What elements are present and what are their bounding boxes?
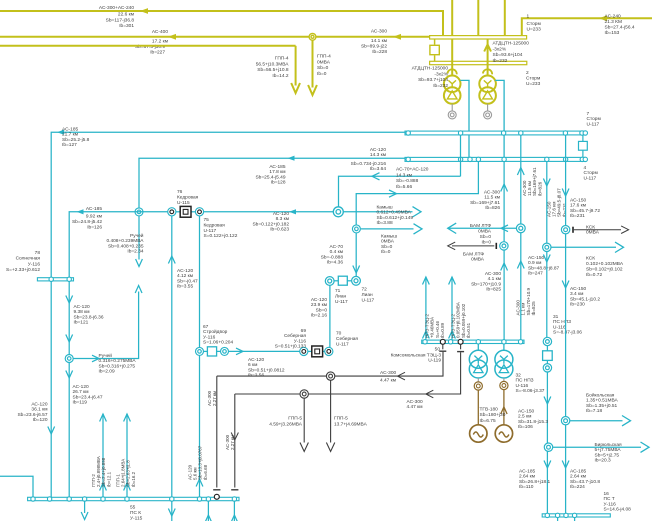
wire line AC-300 4.47km no.1 [217, 352, 443, 376]
svg-text:Стройдвор: Стройдвор [203, 328, 228, 335]
svg-text:4.59+j3.26МВА: 4.59+j3.26МВА [269, 421, 303, 427]
breaker 31-32 NPZ [543, 351, 553, 361]
svg-text:Sb=0.122+j0.182: Sb=0.122+j0.182 [252, 221, 289, 227]
svg-text:Sb=45.1-j10.2: Sb=45.1-j10.2 [570, 296, 600, 302]
svg-text:U-117: U-117 [584, 175, 597, 181]
load arrow KSK black [574, 229, 621, 231]
wire 110kV line AC-120 14.3km to Ruchej tap [139, 158, 405, 208]
svg-text:2.5 км: 2.5 км [518, 414, 531, 420]
svg-text:0МВА: 0МВА [381, 239, 395, 245]
node on busbar B left end [406, 157, 410, 161]
svg-text:1.35+0.51МВА: 1.35+0.51МВА [586, 398, 619, 404]
svg-text:АС-185: АС-185 [570, 469, 586, 475]
svg-text:ГПП-4: ГПП-4 [317, 54, 331, 60]
node ring Ruchej 2 tap [65, 355, 73, 363]
svg-text:Ib=825: Ib=825 [486, 287, 501, 293]
svg-text:АС-240: АС-240 [605, 14, 621, 20]
node on PS T bus 2 [555, 513, 559, 517]
svg-text:Ib=106: Ib=106 [518, 424, 533, 430]
node ring 70 Sebernaya [325, 347, 333, 355]
svg-text:Ib=2.34: Ib=2.34 [127, 249, 143, 255]
svg-text:Ib=0.72: Ib=0.72 [586, 272, 602, 278]
svg-text:ГПП-4: ГПП-4 [275, 56, 289, 62]
svg-text:ПС НПЗ: ПС НПЗ [516, 378, 534, 384]
svg-text:11.5 км: 11.5 км [484, 195, 500, 201]
node on busbar B right end [580, 157, 584, 161]
wire 220kV vertical feeder 2 [477, 0, 479, 36]
svg-text:9.38 км: 9.38 км [74, 309, 90, 315]
wire feeder AC-150 3.4km x565 [565, 135, 567, 514]
open point circle TEC-3 x460 [458, 339, 463, 344]
svg-text:32: 32 [516, 373, 522, 379]
svg-text:Ib=153: Ib=153 [605, 30, 620, 36]
load arrow GPP-5 4.59MVA [303, 398, 305, 442]
svg-text:Sb=0.734-j0.216: Sb=0.734-j0.216 [351, 161, 387, 167]
svg-text:U-117: U-117 [335, 299, 348, 305]
svg-text:7: 7 [587, 111, 590, 117]
line label AC-300 1.1km rot [516, 287, 537, 315]
svg-text:56.5+j10.3МВА: 56.5+j10.3МВА [256, 61, 290, 67]
svg-text:69: 69 [301, 328, 307, 334]
generator G1 neutral ring [477, 378, 479, 382]
wire x547 NPZ to T bus [546, 346, 548, 352]
svg-text:Ib=826: Ib=826 [537, 181, 542, 196]
svg-text:Sb=43.7-j10.8: Sb=43.7-j10.8 [570, 479, 600, 485]
svg-text:U-115: U-115 [177, 200, 190, 206]
svg-text:АС-300: АС-300 [484, 190, 500, 196]
svg-text:S=0.122+j0.122: S=0.122+j0.122 [204, 233, 238, 239]
svg-text:У-116: У-116 [294, 338, 307, 344]
wire 220kV vertical feeder 1 [451, 0, 453, 36]
svg-text:Sb=169+j7.61: Sb=169+j7.61 [470, 200, 500, 206]
wire feeder AC-300 A to TEC-3 bus x520 [520, 135, 522, 340]
svg-text:Sb=-0.888: Sb=-0.888 [396, 178, 419, 184]
svg-text:АТДЦТН-125000: АТДЦТН-125000 [412, 66, 449, 72]
svg-text:Ib=232: Ib=232 [433, 83, 448, 89]
svg-text:U-117: U-117 [336, 341, 349, 347]
svg-text:Sb=0.612+j0.149: Sb=0.612+j0.149 [377, 215, 414, 221]
svg-text:Ib=20.3: Ib=20.3 [595, 458, 611, 464]
svg-text:55: 55 [130, 505, 136, 511]
switch box Sebernaya [308, 350, 312, 352]
svg-text:Sb=24.8-j5.42: Sb=24.8-j5.42 [72, 219, 102, 225]
svg-text:U-117: U-117 [362, 297, 375, 303]
node ring Kamysh 2 [352, 225, 360, 233]
svg-text:АС-70+АС-120: АС-70+АС-120 [396, 167, 429, 173]
svg-text:Ручей: Ручей [99, 352, 113, 359]
svg-text:Ib=5.66: Ib=5.66 [396, 184, 412, 190]
node on K bus x171 [170, 497, 174, 501]
svg-text:Ib=825: Ib=825 [531, 301, 536, 316]
svg-text:Ib=120: Ib=120 [33, 417, 48, 423]
node on busbar B x547 [545, 157, 549, 161]
svg-text:Сторм: Сторм [527, 21, 541, 27]
svg-text:Ib=127: Ib=127 [62, 142, 77, 148]
svg-text:Ib=7.18: Ib=7.18 [586, 408, 602, 414]
line label AC-150 17.6km rot [546, 188, 567, 217]
node on PS T bus 4 [572, 513, 576, 517]
node on K bus x234 [232, 497, 236, 501]
switch box Strojdvor [204, 350, 208, 352]
svg-text:Ib=2.09: Ib=2.09 [99, 369, 115, 375]
line label NPZ-TEC-2 no.1 rot [425, 313, 445, 338]
svg-text:9.92 км: 9.92 км [86, 214, 102, 220]
svg-text:4: 4 [584, 165, 587, 171]
svg-text:Ib=119: Ib=119 [73, 400, 88, 406]
svg-text:АС-300: АС-300 [371, 29, 387, 35]
svg-text:Ib=230: Ib=230 [570, 302, 585, 308]
svg-text:Комсомольская ТЭЦ-3: Комсомольская ТЭЦ-3 [391, 353, 442, 359]
node ring 32 NPZ [543, 364, 551, 372]
svg-text:U=233: U=233 [526, 81, 541, 87]
svg-text:Камыш: Камыш [377, 205, 393, 211]
node ring 67 Strojdvor [196, 347, 204, 355]
svg-text:4.47 км: 4.47 км [407, 404, 423, 410]
svg-text:Ib=121: Ib=121 [74, 320, 89, 326]
svg-text:Лиан: Лиан [335, 293, 346, 299]
busbar 78 Solnechnaya [37, 278, 73, 281]
svg-text:АС-185: АС-185 [86, 206, 102, 212]
load arrow BAM LTF black [452, 245, 494, 247]
wire inflow left [0, 476, 33, 497]
svg-text:Ib=232: Ib=232 [493, 58, 508, 64]
svg-text:1: 1 [527, 14, 530, 20]
node on K bus x33 [31, 497, 35, 501]
svg-text:Sb=45.7-j9.72: Sb=45.7-j9.72 [570, 208, 600, 214]
node on busbar A x565 [563, 131, 567, 135]
svg-text:0.408+0.239МВА: 0.408+0.239МВА [106, 238, 144, 244]
node on TEC-3 bus x478 [476, 340, 480, 344]
feeder NPZ-TEC-2 no.1 [425, 277, 427, 340]
wire transformer AT1 HV feed [451, 39, 453, 76]
wire line AC-120 6km to Sebernaya [229, 350, 300, 352]
svg-text:Сторм: Сторм [587, 116, 601, 122]
node on K bus x208 [206, 497, 210, 501]
line label AC-300 2.27km no.2 rot [225, 434, 235, 450]
svg-text:Sb=-j0.47: Sb=-j0.47 [177, 278, 198, 284]
load arrow Bojkolskaya [570, 420, 623, 422]
svg-text:Сторм: Сторм [526, 76, 540, 82]
busbar 110kV A (7 Storm) [405, 131, 586, 135]
feeder NPZ-TEC-2 no.2 [451, 277, 453, 340]
svg-text:ПС Т: ПС Т [604, 496, 615, 502]
stub below PS T bus 2 [574, 517, 576, 521]
svg-text:Sb=0: Sb=0 [316, 307, 328, 313]
svg-text:АС-150: АС-150 [528, 255, 544, 261]
svg-text:Ib=12.1: Ib=12.1 [106, 471, 111, 487]
svg-text:Sb=93.7+j104: Sb=93.7+j104 [418, 77, 448, 83]
svg-text:6 км: 6 км [248, 362, 257, 368]
node on busbar B right end2 [583, 157, 587, 161]
node on busbar A x460 [458, 131, 462, 135]
svg-text:21.7 км: 21.7 км [62, 132, 78, 138]
svg-text:Камыш: Камыш [381, 234, 397, 240]
node ring BAM LTF black tap [500, 242, 508, 250]
svg-text:ГПП-5: ГПП-5 [288, 416, 302, 422]
svg-text:Ib=6.68: Ib=6.68 [203, 464, 208, 480]
svg-text:Sb=25.4-j5.49: Sb=25.4-j5.49 [255, 174, 285, 180]
svg-text:Ib=2.16: Ib=2.16 [311, 313, 327, 319]
svg-text:U=233: U=233 [527, 27, 542, 33]
svg-text:Ib=231: Ib=231 [570, 213, 585, 219]
wire 220kV vertical feeder 3 [504, 0, 506, 36]
node ring GPP-5 no.2 tap [326, 372, 334, 380]
svg-text:Sb=0.408+0.235: Sb=0.408+0.235 [108, 243, 144, 249]
node ring KSK black tap [561, 226, 569, 234]
wire line AC-120 8.3km Kedrovaya to Kamysh node [204, 211, 334, 213]
wire feeder AC-300 B to TEC-3 bus x504 [503, 161, 505, 340]
node ring 69 Sebernaya [300, 347, 308, 355]
svg-text:75: 75 [204, 217, 210, 223]
svg-text:Бирюльская: Бирюльская [595, 442, 623, 448]
wire 67 Strojdvor south to K bus [199, 356, 201, 498]
svg-text:67: 67 [203, 324, 209, 330]
node ring Ruchej tap [135, 208, 143, 216]
node on TEC-3 bus x504 [502, 340, 506, 344]
load arrow GPP-4 right [312, 40, 314, 87]
wire 220kV line AC-240 to Storm [522, 18, 652, 35]
svg-text:Солнечная: Солнечная [16, 256, 41, 262]
line label AC-300 11.5km rot [522, 167, 543, 196]
svg-text:71: 71 [335, 288, 341, 294]
svg-text:17.8 км: 17.8 км [269, 169, 285, 175]
svg-text:Sb=170+j10.9: Sb=170+j10.9 [471, 281, 501, 287]
wire line AC-120 36.1km south [50, 281, 52, 497]
svg-text:Sb=89.9-j22: Sb=89.9-j22 [361, 43, 387, 49]
svg-text:Sb=25.2-j5.8: Sb=25.2-j5.8 [62, 137, 90, 143]
load arrow 55 PS K [84, 501, 86, 513]
svg-text:У-115: У-115 [130, 516, 143, 521]
generator G1 TGV-180 [477, 390, 479, 425]
tertiary winding AT1 [451, 104, 453, 111]
svg-text:Сторм: Сторм [584, 170, 598, 176]
wire 110kV line AC-185 21.7km to Solnechnaya [51, 132, 405, 278]
tertiary winding AT2 [487, 104, 489, 111]
svg-text:16: 16 [604, 491, 610, 497]
svg-text:Ручей: Ручей [130, 232, 144, 239]
svg-text:S=0.51+j0.133: S=0.51+j0.133 [275, 344, 307, 350]
svg-text:3.4 км: 3.4 км [570, 291, 583, 297]
svg-text:АС-120: АС-120 [177, 268, 193, 274]
svg-text:U-119: U-119 [428, 358, 441, 364]
svg-text:4.12 км: 4.12 км [177, 273, 193, 279]
node ring GPP-5 no.1 tap [300, 390, 308, 398]
transformer T2 TEC-3 [503, 344, 505, 351]
svg-text:Ib=247: Ib=247 [528, 271, 543, 277]
line label AC-300 2.27km no.1 rot [207, 390, 217, 406]
svg-text:5+j7.75МВА: 5+j7.75МВА [595, 447, 622, 453]
svg-text:Sb=0.316+j0.275: Sb=0.316+j0.275 [99, 363, 136, 369]
svg-text:АС-185: АС-185 [519, 469, 535, 475]
svg-text:Ib=128: Ib=128 [271, 180, 286, 186]
svg-text:2.27 км: 2.27 км [212, 391, 217, 406]
svg-text:0.9 км: 0.9 км [528, 260, 541, 266]
svg-text:8.3 км: 8.3 км [276, 216, 289, 222]
node on busbar A x520 [519, 131, 523, 135]
node ring Birjulinskaya [544, 443, 552, 451]
node on TEC-3 bus x450 [448, 340, 452, 344]
wire 220kV line 3 [0, 45, 296, 47]
svg-text:S=1.06+0.204: S=1.06+0.204 [203, 340, 233, 346]
stub below K bus x234 [233, 501, 235, 521]
svg-text:Ib=0.623: Ib=0.623 [270, 227, 289, 233]
svg-text:АС-120: АС-120 [311, 297, 327, 303]
feeder GPP-2 [102, 414, 104, 497]
svg-text:70: 70 [336, 331, 342, 337]
node ring KSK cyan [543, 243, 551, 251]
wire feeder AC-150 17.6km x547 [546, 161, 548, 337]
svg-text:Ib=224: Ib=224 [570, 484, 585, 490]
svg-text:4.1 км: 4.1 км [488, 276, 501, 282]
svg-text:Sb=31.8-j15.3: Sb=31.8-j15.3 [518, 419, 548, 425]
svg-text:Sb=26.8+j18.1: Sb=26.8+j18.1 [519, 479, 551, 485]
node on busbar B x504 [502, 157, 506, 161]
svg-text:Ib=0.89: Ib=0.89 [440, 322, 445, 338]
svg-text:0МВА: 0МВА [317, 59, 331, 65]
stub below PS T bus 1 [557, 517, 559, 521]
node ring Kamysh tap big [333, 207, 343, 217]
node on TEC-3 bus x520 [518, 340, 522, 344]
svg-text:ГПП-5: ГПП-5 [334, 416, 348, 422]
disconnect stub TEC-3 x442 [442, 344, 444, 349]
wire line AC-300 2.27km no.1 south [216, 376, 218, 487]
wire feeder B-x460 down to line y176 [460, 135, 462, 176]
wire line AC-300 4.47km no.2 [235, 352, 461, 394]
node ring 72 Lian [352, 276, 361, 285]
svg-text:Ib=227: Ib=227 [150, 50, 165, 56]
svg-text:Sb=0.102+j0.102: Sb=0.102+j0.102 [586, 267, 623, 273]
stub below K bus x171 [171, 501, 173, 521]
svg-text:Ib=0.51: Ib=0.51 [466, 322, 471, 338]
svg-text:АС-300: АС-300 [380, 370, 396, 376]
feeder GPP-1 [126, 414, 128, 497]
load arrow Kamysh 2 [361, 228, 414, 230]
svg-text:26.7 км: 26.7 км [73, 389, 89, 395]
svg-text:U-116: U-116 [553, 324, 566, 330]
svg-text:U-116: U-116 [516, 383, 529, 389]
svg-text:КСК: КСК [586, 256, 595, 262]
load arrow KSK cyan [551, 246, 616, 248]
svg-text:Кедровая: Кедровая [177, 194, 199, 200]
wire line AC-120 4.12km south [171, 216, 173, 497]
svg-text:Ib=3.64: Ib=3.64 [370, 166, 386, 172]
busbar 55 PS K [28, 497, 239, 500]
svg-text:АС-150: АС-150 [570, 286, 586, 292]
svg-text:АС-120: АС-120 [370, 147, 386, 153]
wire 220kV line AC-300+AC-240 to node left [0, 11, 443, 36]
disconnect tick KSK [572, 227, 574, 233]
svg-text:14.1 км: 14.1 км [371, 38, 387, 44]
node on TEC-3 bus x425 [423, 340, 427, 344]
svg-text:АТДЦТН-125000: АТДЦТН-125000 [493, 41, 530, 47]
busbar 50 Komsomolskaya TEC-3 [422, 340, 524, 343]
svg-text:0.4 км: 0.4 км [330, 249, 343, 255]
svg-text:У-116: У-116 [28, 261, 41, 267]
svg-text:Sb=5+j2.75: Sb=5+j2.75 [595, 452, 620, 458]
node on busbar B x460 [458, 157, 462, 161]
svg-text:Sb=0: Sb=0 [480, 234, 492, 240]
node on K bus x49 [47, 497, 51, 501]
svg-text:АС-120: АС-120 [273, 211, 289, 217]
svg-text:31: 31 [553, 314, 559, 320]
node on Solnechnaya bus x51 [49, 277, 53, 281]
svg-text:13.7+j4.69МВА: 13.7+j4.69МВА [334, 421, 368, 427]
autotransformer AT2 tap arrow [483, 69, 492, 74]
svg-text:Sb=23.4-j6.47: Sb=23.4-j6.47 [73, 394, 103, 400]
autotransformer AT1 tap arrow [448, 69, 457, 74]
svg-text:Ib=301: Ib=301 [119, 23, 134, 29]
svg-text:0МВА: 0МВА [471, 257, 485, 263]
svg-text:23.9 км: 23.9 км [311, 302, 327, 308]
disconnect tick BAM [495, 243, 497, 249]
stub below K bus x208 [207, 501, 209, 521]
svg-text:Sb=48.8+j8.87: Sb=48.8+j8.87 [528, 265, 560, 271]
node ring Bojkolskaya [561, 417, 569, 425]
svg-text:Sb=23.8-j6.36: Sb=23.8-j6.36 [74, 314, 104, 320]
node on busbar A x503 [501, 131, 505, 135]
svg-text:АС-185: АС-185 [62, 127, 78, 133]
node ring BAM LTF cyan [516, 224, 525, 233]
svg-text:78: 78 [35, 250, 41, 256]
svg-text:АС-300: АС-300 [407, 399, 423, 405]
svg-text:Sb=180+j30: Sb=180+j30 [480, 412, 506, 418]
autotransformer AT1 ATDCTN-125000 [444, 76, 461, 93]
wire transformer AT2 HV feed with up arrow [487, 39, 489, 76]
node ring 71 Lian [325, 277, 334, 286]
svg-text:Sb=0: Sb=0 [317, 65, 329, 71]
svg-text:АС-150: АС-150 [570, 198, 586, 204]
svg-text:0.612+0.49МВА: 0.612+0.49МВА [377, 210, 412, 216]
svg-text:Sb=27.4-j56.4: Sb=27.4-j56.4 [605, 25, 635, 31]
wire 75 Kedrovaya down to 67 Strojdvor [199, 216, 201, 347]
load arrow GPP-5 13.7MVA [330, 380, 332, 442]
busbar 110kV B (4 Storm) [405, 157, 585, 161]
svg-text:14.3 км: 14.3 км [396, 172, 412, 178]
line label AC-120 5.6km rot [188, 445, 208, 480]
svg-text:0МВА: 0МВА [586, 230, 600, 236]
load arrow Birjulinskaya [553, 446, 641, 448]
svg-text:0МВА: 0МВА [478, 229, 492, 235]
svg-text:17.6 км: 17.6 км [570, 203, 586, 209]
svg-text:S=14.6-j4.08: S=14.6-j4.08 [604, 507, 632, 513]
svg-text:Ib=6.75: Ib=6.75 [480, 418, 496, 424]
node ring 67b Strojdvor [221, 347, 229, 355]
svg-text:АС-300: АС-300 [485, 271, 501, 277]
svg-text:S=-8.87-j3.06: S=-8.87-j3.06 [553, 330, 582, 336]
svg-text:2: 2 [526, 70, 529, 76]
svg-text:АС-300+АС-240: АС-300+АС-240 [99, 5, 134, 11]
svg-text:У-116: У-116 [203, 334, 216, 340]
transformer T1 TEC-3 [477, 344, 479, 351]
svg-text:Sb=-0.888: Sb=-0.888 [321, 254, 344, 260]
svg-text:Sb=117-j36.8: Sb=117-j36.8 [106, 17, 135, 23]
load arrow Kamysh 1 [344, 211, 413, 213]
busbar 220kV 2 Storm [430, 61, 527, 64]
node on PS T bus 1 [545, 513, 549, 517]
svg-text:Себерная: Себерная [336, 336, 358, 342]
busbar 16 PS T [542, 514, 610, 517]
svg-text:БАМ ЛТФ: БАМ ЛТФ [470, 223, 491, 229]
svg-text:2.64 км: 2.64 км [519, 474, 535, 480]
node on busbar B x478 [476, 157, 480, 161]
svg-text:Бойкольская: Бойкольская [586, 392, 615, 399]
wire line AC-70+AC-120 14.3km [339, 176, 461, 207]
svg-text:36.1 км: 36.1 км [31, 407, 47, 413]
svg-text:ПС НПЗ: ПС НПЗ [553, 319, 571, 325]
switch box Lian [334, 280, 339, 282]
svg-text:Sb=93.6+j104: Sb=93.6+j104 [493, 52, 523, 58]
node ring 75 Kedrovaya [195, 208, 203, 216]
